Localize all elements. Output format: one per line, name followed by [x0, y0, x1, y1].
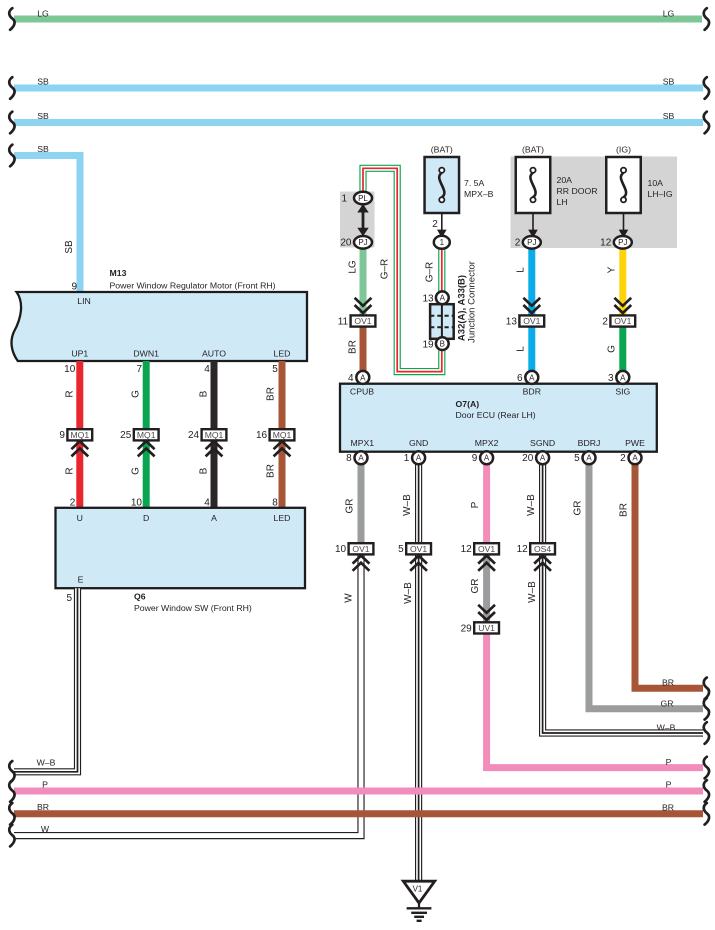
wire B (M13 AUTO to MQ1): [211, 361, 218, 429]
svg-text:A: A: [620, 373, 626, 382]
wire W-B (SGND to OS4): [539, 464, 546, 544]
wire B (MQ1 to Q6 A): [211, 440, 218, 508]
svg-text:OV1: OV1: [410, 544, 427, 554]
wire BR trunk: [14, 810, 703, 817]
svg-text:12: 12: [517, 544, 529, 555]
svg-text:25: 25: [120, 430, 132, 441]
connector 25 MQ1: [134, 429, 159, 440]
svg-text:8: 8: [346, 453, 352, 464]
svg-text:W–B: W–B: [657, 723, 676, 733]
svg-text:BR: BR: [662, 803, 674, 813]
fuse block (gray): [511, 157, 678, 249]
svg-text:5: 5: [398, 544, 404, 555]
wire P (MPX2 to OV1): [483, 464, 490, 544]
svg-text:7. 5A: 7. 5A: [464, 178, 484, 188]
svg-text:PJ: PJ: [358, 238, 367, 247]
switch Q6 Power Window SW (Front RH): [56, 508, 306, 588]
wire G-R (fuse to junction A): [438, 249, 445, 293]
svg-text:OV1: OV1: [352, 544, 369, 554]
svg-text:SGND: SGND: [530, 438, 555, 448]
svg-text:BR: BR: [662, 678, 674, 688]
svg-text:PJ: PJ: [527, 238, 536, 247]
connector 9 MQ1: [67, 429, 92, 440]
svg-text:M13: M13: [110, 268, 127, 278]
arrow PL-PJ: [362, 207, 365, 233]
svg-text:20: 20: [522, 453, 534, 464]
svg-text:BR: BR: [266, 464, 277, 478]
svg-text:GR: GR: [660, 699, 673, 709]
pin 4 A (CPUB): [356, 371, 369, 384]
svg-text:Q6: Q6: [134, 592, 146, 602]
svg-text:MQ1: MQ1: [273, 430, 292, 440]
svg-text:GR: GR: [345, 499, 356, 514]
svg-text:Y: Y: [606, 266, 617, 273]
wire W-B (GND to OV1): [415, 464, 422, 544]
wire G (OV1 to SIG): [619, 327, 626, 372]
wire GR (OV1 to UV1): [483, 554, 490, 622]
wire GR (BDRJ to right edge): [589, 464, 703, 709]
svg-text:12: 12: [600, 238, 612, 249]
svg-text:PL: PL: [358, 194, 368, 203]
svg-text:BDRJ: BDRJ: [578, 438, 601, 448]
svg-text:G: G: [131, 467, 142, 475]
wire G-R loop (PL to junction B): [363, 168, 442, 371]
pin 3 A (SIG): [616, 371, 629, 384]
svg-text:BR: BR: [347, 340, 358, 354]
svg-text:20: 20: [340, 238, 352, 249]
svg-text:R: R: [64, 467, 75, 474]
svg-text:A: A: [540, 454, 546, 463]
wire LG (PJ to OV1): [360, 248, 367, 315]
svg-text:9: 9: [59, 430, 65, 441]
svg-text:UV1: UV1: [478, 623, 495, 633]
wire G (MQ1 to Q6 D): [143, 440, 150, 508]
svg-text:G–R: G–R: [424, 262, 435, 283]
connector block PL/PJ (gray): [340, 192, 375, 248]
svg-text:13: 13: [422, 294, 434, 305]
svg-text:P: P: [470, 501, 481, 508]
svg-text:B: B: [440, 340, 445, 349]
svg-text:2: 2: [432, 219, 438, 230]
svg-text:A: A: [416, 454, 422, 463]
svg-text:O7(A): O7(A): [456, 399, 480, 409]
svg-text:(IG): (IG): [616, 145, 631, 155]
svg-text:A: A: [484, 454, 490, 463]
svg-text:DWN1: DWN1: [133, 349, 159, 359]
svg-text:A: A: [586, 454, 592, 463]
svg-text:W–B: W–B: [402, 494, 413, 516]
svg-text:2: 2: [602, 316, 608, 327]
svg-text:1: 1: [440, 238, 445, 247]
svg-text:5: 5: [66, 593, 72, 604]
svg-text:A: A: [358, 454, 364, 463]
connector 10 OV1: [349, 543, 374, 554]
pin 9 A (MPX2): [480, 451, 493, 464]
svg-text:P: P: [666, 780, 672, 790]
svg-text:LH–IG: LH–IG: [648, 189, 673, 199]
svg-text:MPX1: MPX1: [350, 438, 374, 448]
wire L (OV1 to BDR): [528, 327, 535, 372]
svg-text:SB: SB: [37, 111, 49, 121]
svg-text:A: A: [440, 294, 446, 303]
svg-text:BR: BR: [37, 802, 49, 812]
fuse 10A LH-IG: [606, 157, 641, 213]
connector 16 MQ1: [270, 429, 295, 440]
fuse 7.5A MPX-B: [425, 157, 460, 213]
svg-text:5: 5: [574, 453, 580, 464]
svg-text:5: 5: [272, 364, 278, 375]
svg-text:LG: LG: [663, 9, 675, 19]
svg-text:3: 3: [608, 373, 614, 384]
wire BR (MQ1 to Q6 LED): [279, 440, 286, 508]
connector 12 PJ: [614, 236, 632, 249]
svg-text:L: L: [515, 346, 526, 352]
svg-text:BR: BR: [619, 503, 630, 517]
ground V1: [403, 881, 434, 903]
svg-text:OV1: OV1: [523, 316, 540, 326]
svg-text:LG: LG: [37, 9, 49, 19]
svg-text:2: 2: [515, 238, 521, 249]
pin 1 A (GND): [412, 451, 425, 464]
connector 20 PJ: [354, 236, 372, 249]
svg-text:Junction Connector: Junction Connector: [467, 261, 478, 343]
svg-text:D: D: [143, 513, 149, 523]
svg-text:20A: 20A: [557, 175, 573, 185]
ECU M13 Power Window Regulator Motor (Front RH): [12, 292, 307, 361]
wire SB trunk 2: [14, 119, 703, 126]
svg-text:19: 19: [422, 339, 434, 350]
svg-text:SB: SB: [663, 77, 675, 87]
svg-text:9: 9: [71, 282, 77, 293]
svg-text:UP1: UP1: [71, 349, 88, 359]
svg-text:11: 11: [338, 316, 349, 327]
svg-text:MQ1: MQ1: [70, 430, 89, 440]
svg-text:29: 29: [461, 623, 473, 634]
svg-text:L: L: [515, 267, 526, 273]
svg-text:W–B: W–B: [403, 582, 414, 604]
svg-text:13: 13: [506, 316, 518, 327]
svg-text:AUTO: AUTO: [202, 349, 226, 359]
svg-text:W–B: W–B: [526, 494, 537, 516]
svg-text:A: A: [632, 454, 638, 463]
svg-text:B: B: [199, 467, 210, 474]
svg-text:SB: SB: [37, 144, 49, 154]
svg-text:MQ1: MQ1: [205, 430, 224, 440]
wire SB trunk 1: [14, 85, 703, 92]
svg-text:12: 12: [461, 544, 473, 555]
wire P (UV1 to right edge): [487, 633, 703, 768]
pin 6 A (BDR): [525, 371, 538, 384]
svg-text:R: R: [64, 390, 75, 397]
svg-text:GR: GR: [470, 579, 481, 594]
svg-text:MPX–B: MPX–B: [464, 189, 494, 199]
svg-text:10: 10: [335, 544, 347, 555]
svg-text:4: 4: [204, 364, 210, 375]
svg-text:GND: GND: [409, 438, 428, 448]
break symbols left edge: [9, 8, 14, 30]
connector 2 PJ: [523, 236, 541, 249]
fuse 20A RR DOOR LH: [516, 157, 551, 213]
connector 12 OV1: [474, 543, 499, 554]
svg-text:SB: SB: [37, 77, 49, 87]
svg-text:Door ECU (Rear LH): Door ECU (Rear LH): [456, 410, 536, 420]
svg-text:W–B: W–B: [37, 758, 56, 768]
svg-text:CPUB: CPUB: [350, 386, 374, 396]
svg-text:P: P: [42, 780, 48, 790]
svg-text:1: 1: [404, 453, 410, 464]
svg-text:W–B: W–B: [527, 581, 538, 603]
wire W-B (OS4 to right edge): [543, 554, 703, 733]
svg-text:V1: V1: [413, 885, 423, 894]
svg-text:(BAT): (BAT): [522, 145, 544, 155]
svg-text:G: G: [131, 390, 142, 398]
connector 2 OV1: [614, 298, 631, 313]
svg-text:OV1: OV1: [354, 316, 371, 326]
wire BR (M13 LED to MQ1): [279, 361, 286, 429]
wire Y (PJ to OV1): [619, 248, 626, 315]
svg-text:MQ1: MQ1: [137, 430, 156, 440]
svg-text:10: 10: [64, 364, 76, 375]
svg-text:7: 7: [136, 364, 142, 375]
junction pin 13 A: [436, 291, 449, 304]
break symbols right edge: [704, 8, 709, 30]
ECU O7(A) Door ECU (Rear LH): [340, 384, 657, 452]
svg-text:W: W: [41, 824, 50, 834]
svg-text:U: U: [77, 513, 83, 523]
svg-text:LED: LED: [274, 513, 291, 523]
svg-text:4: 4: [348, 373, 354, 384]
svg-text:9: 9: [472, 453, 478, 464]
wire R (M13 UP1 to MQ1): [76, 361, 83, 429]
svg-text:G: G: [606, 345, 617, 353]
svg-text:(BAT): (BAT): [431, 145, 453, 155]
wire LG trunk (top): [14, 16, 702, 23]
connector 12 OS4: [530, 543, 555, 554]
svg-text:LH: LH: [557, 197, 568, 207]
wire L (PJ to OV1): [528, 248, 535, 315]
wire BR (PWE to right edge): [635, 464, 703, 689]
connector 11 OV1: [355, 298, 372, 313]
svg-text:BR: BR: [266, 387, 277, 401]
svg-text:MPX2: MPX2: [475, 438, 499, 448]
connector 1 PL: [354, 192, 372, 205]
svg-text:OV1: OV1: [478, 544, 495, 554]
svg-text:RR DOOR: RR DOOR: [557, 186, 598, 196]
svg-text:6: 6: [517, 373, 523, 384]
svg-text:LIN: LIN: [77, 296, 91, 306]
wire BR (OV1 to CPUB): [360, 327, 367, 372]
svg-text:Power Window SW (Front RH): Power Window SW (Front RH): [134, 603, 252, 613]
svg-text:W: W: [344, 593, 355, 603]
pin 2 A (PWE): [629, 451, 642, 464]
svg-text:A: A: [211, 513, 217, 523]
svg-text:1: 1: [341, 194, 347, 205]
wire W-B (OV1 to ground V1): [415, 554, 422, 881]
pin 20 A (SGND): [536, 451, 549, 464]
svg-text:10A: 10A: [648, 178, 664, 188]
pin 8 A (MPX1): [355, 451, 368, 464]
connector 13 OV1: [523, 298, 540, 313]
connector 1 (below MPX-B fuse): [434, 236, 450, 249]
svg-text:A: A: [360, 373, 366, 382]
wire GR (MPX1 to OV1): [358, 464, 365, 544]
svg-text:B: B: [199, 390, 210, 397]
wire W-B (Q6 E to left edge): [14, 588, 78, 772]
svg-text:BDR: BDR: [523, 386, 541, 396]
svg-text:PJ: PJ: [618, 238, 627, 247]
svg-text:24: 24: [188, 430, 200, 441]
svg-text:GR: GR: [573, 501, 584, 516]
svg-text:LED: LED: [274, 349, 291, 359]
wire G (M13 DWN1 to MQ1): [143, 361, 150, 429]
svg-text:A: A: [529, 373, 535, 382]
svg-text:Power Window Regulator Motor (: Power Window Regulator Motor (Front RH): [110, 281, 276, 291]
pin 5 A (BDRJ): [583, 451, 596, 464]
junction connector A32(A) A33(B): [430, 304, 454, 339]
svg-text:LG: LG: [347, 260, 358, 274]
junction pin 19 B: [436, 337, 449, 350]
wire W (OV1 to left edge): [14, 554, 361, 836]
svg-text:P: P: [666, 757, 672, 767]
svg-text:SB: SB: [64, 240, 75, 254]
wire R (MQ1 to Q6 U): [76, 440, 83, 508]
svg-text:16: 16: [256, 430, 268, 441]
svg-text:OS4: OS4: [534, 544, 551, 554]
wire SB to M13 pin 9: [14, 156, 80, 293]
svg-text:G–R: G–R: [380, 259, 391, 280]
connector 5 OV1: [406, 543, 431, 554]
connector 29 UV1: [478, 605, 495, 620]
svg-text:E: E: [78, 575, 84, 585]
wire P trunk: [14, 788, 703, 795]
svg-text:PWE: PWE: [625, 438, 645, 448]
svg-text:SIG: SIG: [615, 386, 630, 396]
svg-text:SB: SB: [663, 111, 675, 121]
svg-text:OV1: OV1: [614, 316, 631, 326]
svg-text:2: 2: [620, 453, 626, 464]
connector 24 MQ1: [202, 429, 227, 440]
